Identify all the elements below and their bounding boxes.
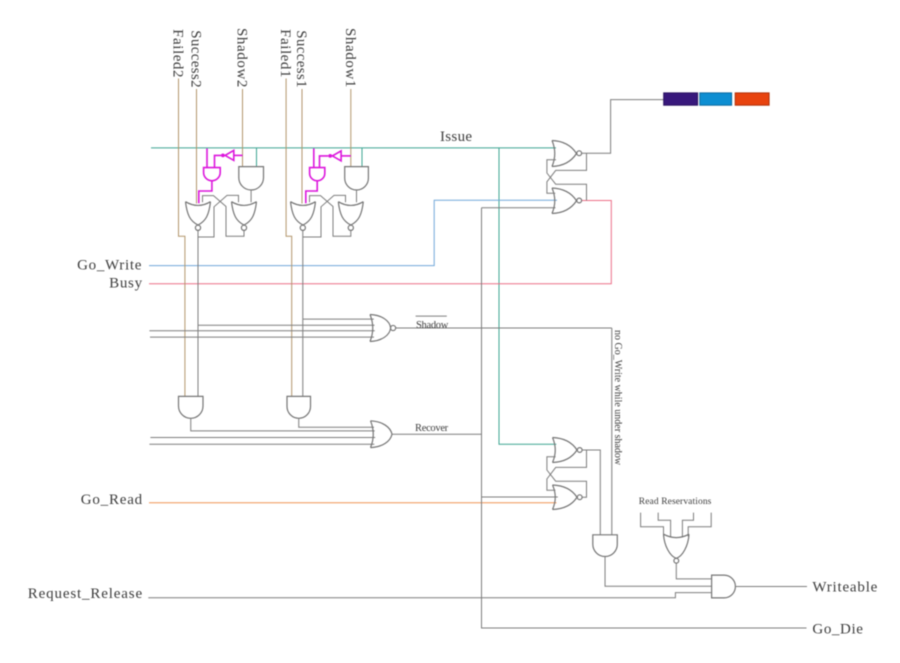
wire U7 output to U8 [306, 181, 317, 203]
svg-text:Failed1: Failed1 [277, 29, 293, 78]
wire U3 output (Q2) down to U11 and shadow bus [197, 231, 199, 397]
wire shadow bus A from Q1 [303, 318, 374, 320]
wire U14b output to U17 [299, 418, 374, 427]
svg-text:Success1: Success1 [293, 30, 309, 88]
nor-gate U18 (read reservations) [664, 534, 690, 558]
wire U4 cross-couple to U3 [203, 196, 245, 237]
wire U2 output to U3 [199, 181, 212, 203]
wire Request_Release [148, 593, 711, 598]
nor-gate U14 (shadow latch bottom) [553, 485, 578, 510]
wire Success2 [196, 89, 198, 204]
and-gate U14b (Failed1 & Q1) [287, 396, 311, 418]
wire U9 cross-couple to U8 [310, 196, 351, 237]
and-gate U10 (Shadow1 & Issue) [345, 167, 369, 190]
svg-text:Shadow: Shadow [416, 320, 449, 331]
and-gate U2 (magenta) [204, 168, 221, 181]
wire Issue branch to U2 (magenta) [206, 149, 208, 168]
nor-gate U12 (Issue latch bottom) [552, 188, 577, 214]
and-gate U15 (no write while shadow) [593, 535, 618, 557]
read reservations bracket left outer [641, 513, 664, 537]
wire recover bus G [150, 437, 375, 439]
svg-text:Issue: Issue [440, 129, 472, 145]
wire U8 output (Q1) down to U14 and shadow bus [302, 231, 304, 397]
svg-text:Writeable: Writeable [812, 580, 878, 596]
svg-text:Shadow2: Shadow2 [234, 28, 250, 88]
legend bar segment 3 [735, 93, 769, 105]
svg-text:Success2: Success2 [188, 30, 204, 88]
nor-gate U11 (Issue latch top) [552, 141, 577, 167]
inverter U6 (magenta) [332, 151, 341, 161]
wire Go_Read (orange) [149, 502, 557, 504]
nor-gate U9 (latch right) [338, 202, 363, 225]
wire Issue branch to U10 [361, 148, 363, 167]
and-gate U19 (Writeable) [712, 575, 736, 598]
wire Go_Write (blue) [149, 200, 557, 265]
wire U6 output to U7 [320, 156, 329, 167]
wire shadow bus B from Q2 [198, 324, 375, 326]
wire U10 output to U9 [356, 190, 358, 202]
wire U8 cross-couple to U9 [303, 195, 346, 237]
read reservations bracket left inner [658, 513, 670, 538]
wire Failed1 [286, 79, 292, 397]
svg-text:Go_Read: Go_Read [81, 492, 143, 508]
wire Shadow to U15 [611, 328, 613, 535]
wire Busy (pink) from latch U12 output [149, 201, 611, 284]
wire U11b output to U17 [191, 418, 375, 431]
nor-gate U16 (Shadow) [370, 315, 391, 342]
nor-gate U13 (shadow latch top) [553, 438, 578, 463]
wire Issue branch to U7 (magenta) [313, 149, 315, 168]
svg-text:Go_Die: Go_Die [812, 621, 863, 637]
nor-gate U3 (latch left) [186, 202, 211, 225]
wire shadow bus D [150, 336, 374, 338]
read reservations bracket right inner [682, 513, 693, 538]
wire U15 output to U19 [605, 557, 712, 587]
wire U11 cross-couple to U12 [547, 153, 587, 193]
and-gate U11b (Failed2 & Q2) [179, 396, 204, 418]
wire Shadow output [396, 327, 612, 329]
wire U12 cross-couple to U11 [547, 160, 587, 201]
svg-text:Busy: Busy [109, 276, 143, 292]
nor-gate U4 (latch right) [232, 202, 257, 225]
wire Issue branch to U5 [256, 148, 258, 167]
wire U1 output to U2 [215, 155, 222, 167]
wire Go_Die net [482, 208, 807, 628]
legend bar segment 1 [664, 93, 698, 105]
inverter U1 (magenta) [225, 150, 234, 160]
wire U5 output to U4 [250, 190, 252, 202]
wire recover bus H [149, 443, 374, 445]
and-gate U7 (magenta) [310, 168, 325, 181]
wire Failed2 [179, 79, 185, 397]
legend bar segment 2 [700, 93, 732, 105]
read reservations bracket right outer [688, 513, 711, 537]
svg-text:Recover: Recover [415, 423, 449, 434]
wire U13 cross-couple to U14 [547, 450, 587, 490]
wire Success1 [301, 89, 303, 204]
wire U13 output to U15 [582, 450, 600, 535]
wire U14 cross-couple to U13 [547, 457, 587, 497]
wire Writeable output [735, 586, 807, 588]
wire Issue (teal) [151, 147, 556, 149]
wire Shadow2 [242, 89, 244, 167]
wire Issue branch to latch U13 [499, 148, 556, 444]
svg-text:Read Reservations: Read Reservations [639, 497, 712, 507]
wire U11 output to color bar [582, 100, 664, 154]
wire inverter input from Shadow2 [234, 154, 243, 156]
svg-text:Go_Write: Go_Write [77, 258, 142, 274]
svg-text:Shadow1: Shadow1 [342, 28, 358, 88]
and-gate U5 (Shadow2 & Issue) [239, 167, 264, 190]
wire U3 cross-couple to U4 [198, 195, 239, 237]
svg-text:no Go_Write while under shadow: no Go_Write while under shadow [612, 330, 623, 466]
wire Shadow1 [350, 89, 352, 167]
wire Recover output [392, 433, 482, 435]
svg-text:Failed2: Failed2 [170, 29, 186, 78]
nor-gate U8 (latch left) [291, 202, 316, 225]
wire U18 output to U19 [676, 563, 711, 579]
wire inverter input from Shadow1 [341, 155, 351, 157]
or-gate U17 (Recover) [371, 421, 393, 448]
wire shadow bus C [149, 330, 374, 332]
svg-text:Request_Release: Request_Release [28, 586, 143, 602]
